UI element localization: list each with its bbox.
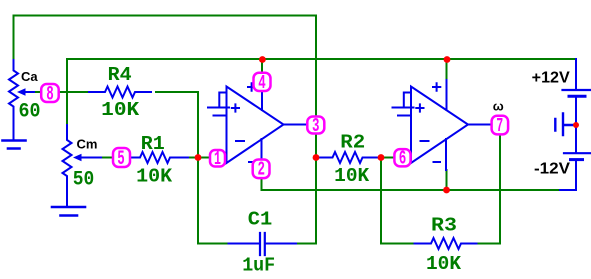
junction dot rail pin4 U2 bbox=[444, 56, 451, 63]
junction dot -rail pin2 U2 bbox=[443, 187, 450, 194]
potentiometer Ca body bbox=[9, 60, 18, 140]
resistor R1 bbox=[130, 152, 188, 163]
battery V2 -12V plates bbox=[564, 152, 590, 154]
op-amp U1 triangle bbox=[227, 87, 284, 164]
capacitor C1 bbox=[229, 243, 297, 245]
node 2 pill bbox=[253, 160, 270, 179]
wire +supply rail y=59 from Cm top to +12V battery bbox=[67, 58, 575, 60]
node 1 pill bbox=[210, 150, 225, 167]
svg-text:1uF: 1uF bbox=[242, 255, 275, 277]
wire R2 right junction to node 6 bbox=[379, 157, 395, 159]
svg-text:R1: R1 bbox=[141, 133, 165, 155]
node 6 pill bbox=[394, 149, 410, 166]
junction dot node1/R1/R4/C1 bbox=[195, 154, 202, 161]
svg-text:10K: 10K bbox=[136, 166, 173, 188]
svg-text:8: 8 bbox=[46, 84, 54, 107]
svg-text:3: 3 bbox=[312, 115, 320, 137]
potentiometer Cm body bbox=[63, 125, 72, 206]
svg-text:7: 7 bbox=[496, 115, 503, 137]
wire node 3 down to R2 junction bbox=[315, 134, 317, 158]
node 3 pill bbox=[307, 117, 324, 134]
battery stack wiring bbox=[560, 59, 576, 190]
svg-text:1: 1 bbox=[214, 148, 221, 170]
svg-text:5: 5 bbox=[117, 148, 125, 171]
node 8 pill bbox=[41, 84, 59, 102]
op-amp U2 grounded + input bbox=[393, 93, 414, 116]
junction dot rail pin4 U1 bbox=[259, 56, 266, 63]
wire op-amp2 pin 2 down to -supply rail bbox=[446, 170, 448, 190]
op-amp U1 plus glyph inside bbox=[232, 104, 239, 111]
svg-text:4: 4 bbox=[258, 72, 266, 94]
op-amp U1 output lead bbox=[284, 124, 308, 126]
ground below Ca bbox=[3, 141, 26, 149]
resistor R2 bbox=[320, 152, 379, 163]
svg-text:Cm: Cm bbox=[77, 137, 98, 152]
resistor R3 bbox=[415, 238, 477, 249]
wire R3 left vertical from R2 junction bbox=[381, 158, 415, 244]
wire R1 right lead to junction to node 1 bbox=[189, 157, 210, 159]
svg-text:10K: 10K bbox=[334, 165, 370, 187]
op-amp U1 pin 2 minus mark bbox=[249, 161, 256, 163]
svg-text:R4: R4 bbox=[108, 64, 132, 86]
svg-text:R2: R2 bbox=[340, 132, 365, 154]
wire C1 left branch down from junction bbox=[198, 158, 229, 244]
ground below Cm bbox=[52, 207, 85, 216]
ground at battery midpoint bbox=[555, 114, 574, 136]
potentiometer Cm wiper arrow bbox=[81, 157, 101, 159]
node 7 pill bbox=[492, 116, 509, 135]
op-amp U1 pin 4 plus mark bbox=[248, 83, 255, 90]
wire C1 right branch up to node 3 net bbox=[296, 134, 316, 244]
node 4 pill bbox=[254, 73, 271, 91]
op-amp U2 triangle bbox=[411, 87, 468, 164]
wire op-amp1 pin 4 to rail bbox=[261, 59, 263, 73]
op-amp U1 minus glyph inside bbox=[236, 140, 244, 142]
svg-text:60: 60 bbox=[19, 101, 41, 124]
wire R2 left green stub bbox=[316, 157, 320, 159]
op-amp U2 pin 4 lead bbox=[446, 80, 448, 110]
wire node 5 green stub bbox=[101, 157, 113, 159]
op-amp U2 output lead bbox=[468, 124, 492, 126]
op-amp U2 pin 2 lead bbox=[445, 139, 447, 170]
op-amp U1 pin 4 lead bbox=[261, 91, 263, 110]
battery V1 +12V plates bbox=[563, 89, 591, 91]
svg-text:R3: R3 bbox=[431, 215, 457, 237]
svg-text:C1: C1 bbox=[248, 209, 273, 231]
svg-text:50: 50 bbox=[73, 169, 95, 192]
op-amp U2 minus glyph inside bbox=[421, 140, 429, 142]
wire op-amp2 pin 4 to rail bbox=[446, 59, 448, 80]
node 5 pill bbox=[113, 148, 130, 167]
svg-text:10K: 10K bbox=[101, 99, 140, 121]
wire top: output net from node 3 up and over to Ca top bbox=[14, 16, 317, 117]
wire R3 right vertical up to node 7 bbox=[479, 135, 501, 244]
svg-text:+12V: +12V bbox=[532, 70, 570, 87]
op-amp U1 pin 2 lead bbox=[261, 139, 263, 160]
op-amp U1 grounded + input bbox=[208, 93, 229, 116]
resistor R4 bbox=[89, 87, 151, 98]
svg-text:10K: 10K bbox=[426, 253, 462, 275]
junction dot R2/R3/node6 bbox=[378, 154, 385, 161]
wire op-amp1 pin 2 down to -supply rail bbox=[262, 178, 561, 190]
wire Cm top vertical bbox=[66, 59, 68, 125]
potentiometer Ca wiper arrow bbox=[25, 91, 36, 93]
svg-text:Ca: Ca bbox=[21, 69, 38, 84]
op-amp U2 pin 2 minus mark bbox=[434, 161, 441, 163]
svg-text:-12V: -12V bbox=[534, 161, 570, 178]
op-amp U2 pin 4 plus mark bbox=[433, 83, 440, 90]
svg-text:6: 6 bbox=[399, 148, 407, 170]
svg-text:ω: ω bbox=[493, 99, 504, 114]
junction dot node3/R2/C1 bbox=[313, 154, 320, 161]
op-amp U2 plus glyph inside bbox=[416, 104, 423, 111]
junction dot battery midpoint bbox=[573, 122, 579, 128]
svg-text:2: 2 bbox=[257, 159, 265, 181]
wire node 8 to R4 (green segments) bbox=[59, 92, 199, 158]
